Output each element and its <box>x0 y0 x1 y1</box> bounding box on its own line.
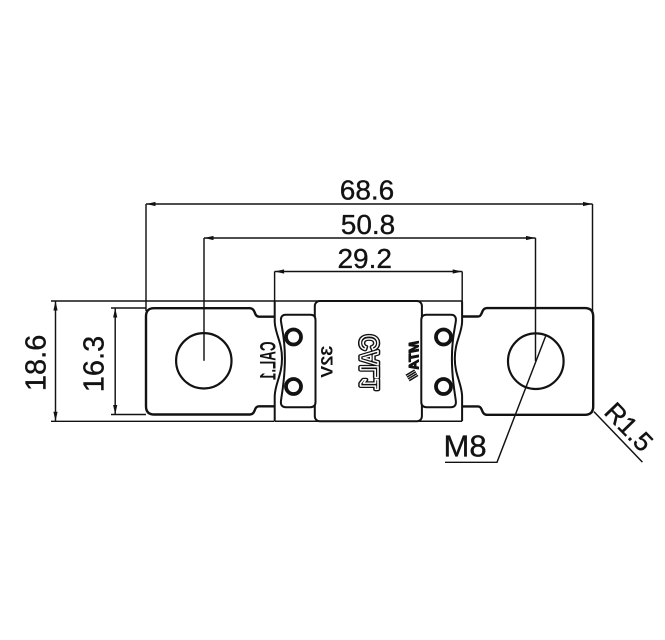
right bracket clamp plate <box>421 315 456 407</box>
right bracket rivet top <box>436 330 451 345</box>
dimension 16.3 arrow bottom <box>113 405 117 415</box>
dimension 68.6 extension line left <box>145 204 147 311</box>
dimension 29.2 arrow left <box>275 269 285 273</box>
dimension 16.3 line <box>114 308 116 415</box>
svg-text:68.6: 68.6 <box>340 175 395 206</box>
dimension 68.6 extension line right <box>592 204 594 311</box>
dimension 29.2 arrow right <box>453 269 463 273</box>
svg-text:29.2: 29.2 <box>337 243 392 274</box>
dimension 16.3 arrow top <box>113 308 117 318</box>
dimension 50.8 extension line left to hole center <box>203 238 205 361</box>
left bracket rivet top <box>286 330 301 345</box>
svg-text:32V: 32V <box>317 346 336 379</box>
dimension 18.6 arrow top <box>53 301 57 311</box>
fuse housing bottom edge <box>275 420 463 422</box>
dimension 18.6 extension line bottom <box>51 420 274 422</box>
dimension 68.6 arrow right <box>583 202 593 206</box>
dimension 50.8 extension line right to hole center <box>535 238 537 361</box>
left bracket clamp plate <box>281 315 316 407</box>
right bracket rivet bottom <box>436 379 451 394</box>
dimension 68.6 line <box>146 203 593 205</box>
dimension 29.2 extension line right <box>461 272 463 303</box>
svg-text:CAL1: CAL1 <box>356 335 384 390</box>
dimension 18.6 extension line top <box>51 300 274 302</box>
right terminal lug and tab <box>462 308 593 415</box>
left bracket outer face profile <box>275 302 282 422</box>
leader M8 <box>445 336 546 462</box>
leader R1.5 <box>594 412 643 463</box>
left bracket rivet bottom <box>286 379 301 394</box>
left terminal lug and tab <box>146 308 274 414</box>
dimension 50.8 arrow left <box>204 236 214 240</box>
svg-text:50.8: 50.8 <box>341 209 396 240</box>
svg-text:M8: M8 <box>444 428 487 463</box>
dimension 50.8 arrow right <box>526 236 536 240</box>
right bracket outer face profile <box>455 302 462 422</box>
MTA logo stripes <box>406 370 418 381</box>
dimension 29.2 extension line left <box>274 272 276 303</box>
housing embossed text CAL1 <box>356 335 384 390</box>
dimension 29.2 line <box>275 271 463 273</box>
dimension 18.6 line <box>55 301 57 421</box>
dimension 18.6 arrow bottom <box>53 412 57 422</box>
left lug hole <box>176 333 231 388</box>
MTA logo text <box>407 341 422 370</box>
dimension 16.3 extension line top <box>111 307 146 309</box>
dimension 68.6 arrow left <box>146 202 156 206</box>
fuse housing center body <box>315 301 422 421</box>
right lug hole <box>508 333 564 389</box>
fuse housing top edge <box>275 300 463 302</box>
svg-text:MTA: MTA <box>407 341 422 370</box>
svg-text:18.6: 18.6 <box>20 335 52 391</box>
svg-text:16.3: 16.3 <box>78 336 110 392</box>
svg-text:CAL.1: CAL.1 <box>256 342 281 381</box>
dimension 16.3 extension line bottom <box>111 414 146 416</box>
dimension 50.8 line <box>204 237 536 239</box>
